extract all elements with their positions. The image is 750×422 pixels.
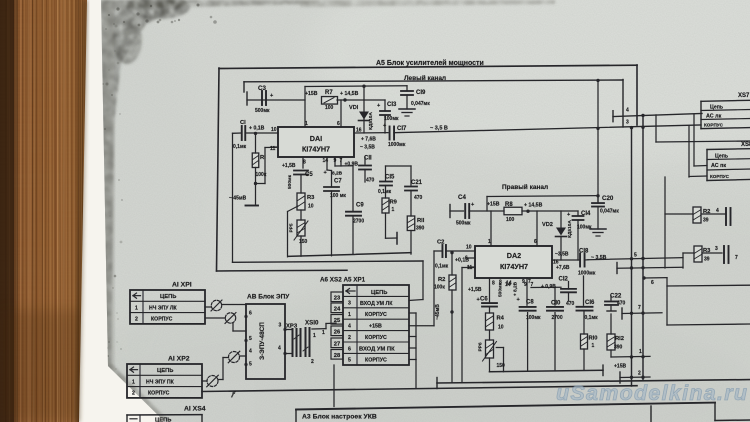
svg-text:2: 2	[348, 335, 351, 341]
svg-text:+0,9В: +0,9В	[345, 162, 359, 168]
svg-text:500мк: 500мк	[456, 221, 471, 227]
svg-text:5: 5	[634, 253, 637, 259]
svg-text:0,1мк: 0,1мк	[435, 264, 449, 270]
svg-text:VD2: VD2	[542, 222, 553, 228]
svg-text:8,2В: 8,2В	[332, 171, 343, 177]
svg-text:AI XPI: AI XPI	[172, 282, 192, 289]
svg-text:С3: С3	[258, 85, 266, 92]
svg-text:СI0: СI0	[551, 301, 561, 307]
svg-text:16: 16	[356, 128, 362, 134]
svg-text:+0,1В: +0,1В	[455, 258, 469, 264]
svg-text:С21: С21	[411, 180, 423, 186]
svg-text:3: 3	[279, 323, 282, 329]
svg-text:6: 6	[337, 121, 340, 127]
svg-text:R2: R2	[703, 209, 710, 215]
svg-text:3: 3	[715, 246, 718, 252]
svg-text:R3: R3	[703, 248, 711, 254]
svg-text:1000мк: 1000мк	[388, 142, 406, 148]
svg-text:470: 470	[566, 301, 575, 307]
svg-text:1: 1	[313, 333, 316, 339]
svg-text:1000мк: 1000мк	[578, 271, 596, 277]
svg-text:100к: 100к	[256, 172, 267, 178]
svg-text:5: 5	[348, 358, 351, 364]
svg-text:5: 5	[249, 336, 252, 342]
svg-text:AI XP2: AI XP2	[168, 356, 190, 363]
svg-text:РР6: РР6	[478, 342, 484, 351]
svg-text:1: 1	[322, 330, 325, 336]
svg-text:150: 150	[299, 239, 308, 245]
svg-text:4: 4	[348, 323, 351, 329]
svg-text:С22: С22	[610, 293, 622, 300]
svg-text:КОРПУС: КОРПУС	[710, 174, 730, 179]
svg-text:КОРПУС: КОРПУС	[365, 335, 387, 341]
svg-text:+ 0,1В: + 0,1В	[249, 126, 265, 132]
svg-text:9: 9	[524, 282, 527, 288]
svg-text:100 мк: 100 мк	[330, 193, 346, 199]
svg-text:СI6: СI6	[585, 300, 595, 306]
svg-text:10: 10	[498, 325, 504, 331]
svg-text:7: 7	[531, 282, 534, 288]
svg-text:3: 3	[626, 120, 629, 126]
svg-text:АС пк: АС пк	[711, 163, 726, 169]
svg-text:1: 1	[348, 312, 351, 318]
svg-text:VDI: VDI	[349, 105, 359, 111]
svg-text:7: 7	[340, 158, 343, 164]
svg-text:0,047мк: 0,047мк	[600, 209, 619, 215]
svg-text:ХРЗ: ХРЗ	[286, 324, 298, 330]
svg-text:СI8: СI8	[579, 249, 589, 255]
svg-text:Правый канал: Правый канал	[502, 183, 548, 191]
svg-text:Левый канал: Левый канал	[404, 74, 446, 82]
svg-text:6: 6	[249, 311, 252, 317]
svg-text:+ 8,2В: + 8,2В	[513, 281, 519, 296]
svg-text:НЧ ЭПУ ПК: НЧ ЭПУ ПК	[146, 379, 175, 385]
svg-text:2: 2	[638, 371, 641, 377]
svg-text:1: 1	[305, 121, 308, 127]
svg-text:R4: R4	[497, 316, 505, 322]
svg-text:100к: 100к	[434, 285, 445, 291]
svg-text:КОРПУС: КОРПУС	[148, 391, 170, 397]
svg-text:2: 2	[135, 317, 138, 323]
svg-text:27: 27	[334, 341, 340, 347]
svg-text:~45мВ: ~45мВ	[435, 304, 441, 320]
svg-text:РР5: РР5	[289, 223, 295, 232]
svg-text:ЦЕПЬ: ЦЕПЬ	[160, 294, 176, 300]
svg-text:R7: R7	[325, 90, 333, 96]
svg-text:26: 26	[334, 329, 341, 335]
svg-text:~ 3,5В: ~ 3,5В	[360, 145, 375, 151]
svg-text:470: 470	[414, 195, 423, 201]
svg-text:4: 4	[716, 208, 719, 214]
svg-text:4: 4	[278, 346, 281, 352]
svg-text:СI9: СI9	[416, 90, 426, 96]
svg-text:+15В: +15В	[487, 202, 500, 208]
svg-text:6: 6	[651, 280, 654, 286]
svg-text:14: 14	[323, 158, 329, 164]
svg-text:24: 24	[334, 306, 341, 312]
svg-text:АВ Блок ЭПУ: АВ Блок ЭПУ	[247, 294, 290, 301]
svg-text:КОРПУС: КОРПУС	[704, 122, 724, 127]
svg-text:А5 Блок усилителей мощности: А5 Блок усилителей мощности	[376, 59, 484, 67]
svg-text:АС лк: АС лк	[706, 113, 722, 119]
svg-text:150: 150	[497, 363, 506, 369]
svg-text:RII: RII	[417, 218, 425, 224]
svg-text:КI74УН7: КI74УН7	[302, 145, 330, 154]
svg-text:С9: С9	[356, 203, 364, 209]
svg-text:5: 5	[249, 362, 252, 368]
svg-text:25: 25	[334, 318, 341, 324]
svg-text:23: 23	[334, 295, 341, 301]
svg-text:3: 3	[348, 301, 351, 307]
svg-text:39: 39	[704, 257, 710, 263]
svg-text:10: 10	[308, 204, 314, 210]
svg-text:XSI0: XSI0	[305, 320, 319, 327]
svg-text:9: 9	[334, 158, 337, 164]
svg-text:СI3: СI3	[387, 102, 397, 108]
svg-text:470: 470	[617, 301, 626, 307]
svg-text:+1,5В: +1,5В	[468, 287, 482, 293]
svg-text:7: 7	[638, 305, 641, 311]
svg-text:1: 1	[488, 239, 491, 245]
svg-text:470: 470	[366, 178, 375, 184]
svg-text:2: 2	[311, 359, 314, 365]
svg-text:11: 11	[467, 265, 473, 271]
svg-text:СI7: СI7	[397, 126, 407, 132]
svg-text:С20: С20	[602, 195, 614, 202]
svg-text:С2: С2	[437, 240, 444, 246]
svg-text:С7: С7	[334, 179, 342, 185]
svg-text:1: 1	[592, 343, 595, 349]
svg-text:500мк: 500мк	[287, 174, 293, 189]
svg-text:С8: С8	[526, 300, 534, 306]
svg-text:С4: С4	[458, 194, 466, 201]
svg-text:8: 8	[303, 160, 306, 166]
svg-text:+15В: +15В	[614, 364, 626, 370]
svg-text:+15В: +15В	[305, 91, 318, 97]
svg-text:1: 1	[639, 349, 642, 355]
svg-text:1: 1	[132, 379, 135, 385]
svg-text:XS8: XS8	[741, 142, 750, 148]
svg-text:А6 XS2 А5 ХР1: А6 XS2 А5 ХР1	[320, 277, 366, 284]
svg-text:4: 4	[249, 349, 252, 355]
svg-text:uSamodelkina.ru: uSamodelkina.ru	[556, 381, 747, 405]
svg-text:КД510А: КД510А	[567, 220, 573, 238]
svg-text:39: 39	[703, 218, 709, 224]
svg-text:+ 7,6В: + 7,6В	[361, 137, 376, 143]
svg-text:6: 6	[348, 347, 351, 353]
svg-text:100мк: 100мк	[526, 315, 541, 321]
svg-text:10: 10	[271, 127, 277, 133]
svg-text:+ 14,5В: + 14,5В	[524, 203, 543, 209]
svg-text:2: 2	[132, 391, 135, 397]
svg-text:500мк: 500мк	[255, 108, 270, 114]
svg-text:R8: R8	[505, 202, 513, 208]
svg-text:КД510А: КД510А	[368, 112, 374, 130]
svg-text:Цепь: Цепь	[710, 104, 723, 110]
svg-text:ВХОД УМ ЛК: ВХОД УМ ЛК	[360, 301, 393, 307]
svg-text:DA2: DA2	[507, 251, 521, 260]
svg-text:СI2: СI2	[559, 277, 569, 283]
svg-text:КОРПУС: КОРПУС	[365, 358, 387, 364]
svg-text:390: 390	[416, 226, 425, 232]
svg-text:ЦЕПЬ: ЦЕПЬ	[371, 290, 387, 296]
svg-text:RI2: RI2	[615, 336, 624, 342]
svg-text:+1,5В: +1,5В	[282, 163, 296, 169]
svg-text:КОРПУС: КОРПУС	[151, 317, 173, 323]
svg-text:+ 14,5В: + 14,5В	[340, 91, 359, 97]
svg-text:100: 100	[506, 217, 515, 223]
svg-text:КI74УН7: КI74УН7	[500, 262, 528, 271]
svg-text:2700: 2700	[353, 219, 364, 225]
svg-text:8: 8	[492, 281, 495, 287]
svg-text:390: 390	[614, 345, 623, 351]
svg-text:28: 28	[334, 353, 341, 359]
svg-text:Цепь: Цепь	[715, 153, 728, 159]
svg-text:А3 Блок настроек УКВ: А3 Блок настроек УКВ	[302, 414, 377, 421]
svg-text:14: 14	[506, 281, 512, 287]
svg-text:~ 3,5В: ~ 3,5В	[591, 255, 607, 261]
svg-text:СII: СII	[364, 156, 372, 162]
svg-text:R9: R9	[390, 200, 398, 206]
svg-text:+ 0,9В: + 0,9В	[541, 284, 556, 290]
svg-text:СI: СI	[240, 120, 246, 126]
svg-text:+7,6В: +7,6В	[556, 265, 570, 271]
svg-text:НЧ ЭПУ ЛК: НЧ ЭПУ ЛК	[149, 305, 178, 311]
svg-text:DAI: DAI	[310, 134, 322, 143]
svg-text:AI XS4: AI XS4	[184, 406, 206, 413]
svg-text:З-ЭПУ-48СП: З-ЭПУ-48СП	[259, 322, 266, 360]
svg-text:R3: R3	[307, 195, 315, 201]
svg-text:ЦЕПЬ: ЦЕПЬ	[155, 418, 171, 422]
svg-text:С5: С5	[305, 172, 313, 178]
svg-text:~ 45мВ: ~ 45мВ	[229, 196, 247, 202]
svg-text:СI5: СI5	[385, 175, 395, 181]
svg-text:6: 6	[534, 239, 537, 245]
svg-text:7: 7	[735, 255, 738, 261]
svg-text:2700: 2700	[552, 315, 563, 321]
svg-text:R2: R2	[438, 277, 445, 283]
svg-text:0,1мк: 0,1мк	[233, 144, 247, 150]
svg-text:RI: RI	[260, 155, 266, 161]
svg-text:500мк: 500мк	[498, 282, 504, 297]
svg-text:1: 1	[392, 207, 395, 213]
svg-text:ВХОД УМ ПК: ВХОД УМ ПК	[359, 347, 395, 353]
svg-text:+15В: +15В	[369, 323, 382, 329]
svg-text:11: 11	[270, 146, 276, 152]
svg-text:4: 4	[626, 108, 629, 114]
svg-text:0,047мк: 0,047мк	[411, 101, 430, 107]
svg-text:~3,5В: ~3,5В	[555, 252, 569, 258]
svg-text:СI4: СI4	[581, 211, 591, 217]
svg-text:100мк: 100мк	[577, 225, 592, 231]
svg-text:КОРПУС: КОРПУС	[365, 312, 387, 318]
svg-text:0,1мк: 0,1мк	[585, 315, 599, 321]
svg-text:RI0: RI0	[589, 336, 598, 342]
svg-text:10: 10	[466, 245, 472, 251]
svg-text:~ 3,5 В: ~ 3,5 В	[430, 126, 448, 132]
svg-text:1: 1	[135, 305, 138, 311]
svg-text:ЦЕПЬ: ЦЕПЬ	[157, 368, 173, 374]
svg-text:С6: С6	[480, 297, 488, 303]
svg-text:100мк: 100мк	[384, 116, 399, 122]
svg-text:XS7: XS7	[738, 93, 750, 99]
svg-text:100: 100	[325, 105, 334, 111]
svg-text:0,1мк: 0,1мк	[378, 189, 392, 195]
